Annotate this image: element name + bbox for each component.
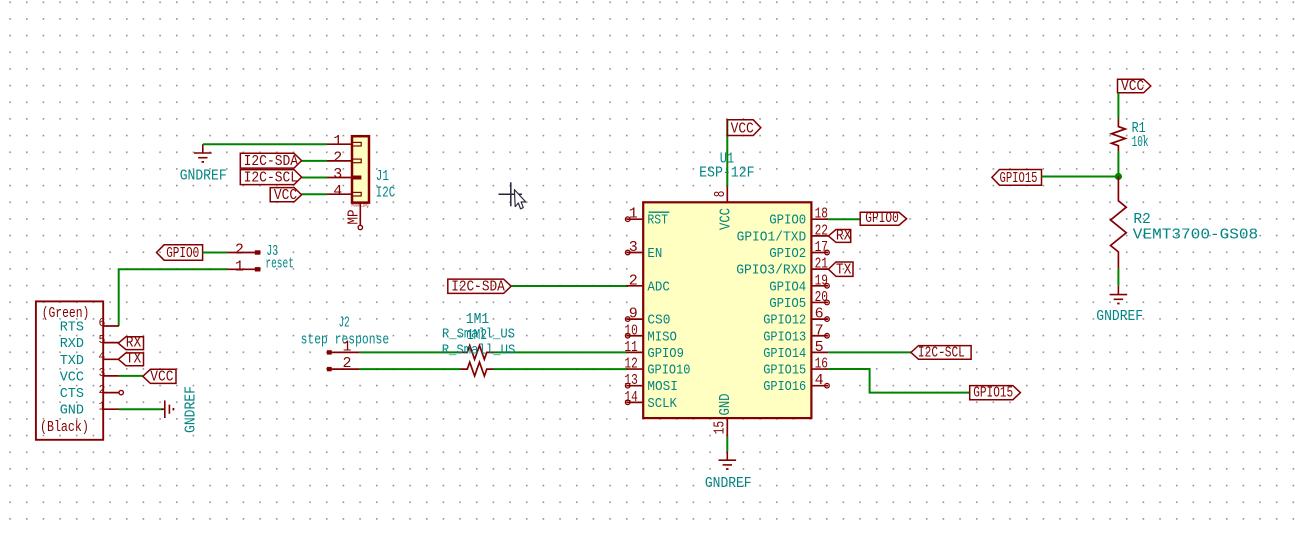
svg-text:GPIO0: GPIO0 bbox=[166, 245, 199, 262]
svg-text:GND: GND bbox=[60, 403, 84, 419]
svg-text:J2: J2 bbox=[339, 315, 350, 332]
svg-text:GPIO14: GPIO14 bbox=[763, 346, 806, 362]
svg-text:1: 1 bbox=[342, 339, 351, 356]
svg-text:J1: J1 bbox=[376, 168, 389, 185]
svg-text:VEMT3700-GS08: VEMT3700-GS08 bbox=[1133, 226, 1258, 243]
svg-text:VCC: VCC bbox=[150, 368, 173, 385]
svg-text:GPIO16: GPIO16 bbox=[763, 379, 806, 395]
svg-text:11: 11 bbox=[624, 339, 637, 356]
svg-text:I2C-SDA: I2C-SDA bbox=[244, 153, 299, 170]
svg-text:CTS: CTS bbox=[60, 386, 84, 402]
svg-text:VCC: VCC bbox=[60, 369, 84, 385]
svg-text:21: 21 bbox=[815, 256, 828, 273]
svg-text:GNDREF: GNDREF bbox=[180, 168, 227, 185]
svg-text:6: 6 bbox=[99, 317, 106, 330]
svg-text:7: 7 bbox=[815, 322, 824, 339]
svg-text:RST: RST bbox=[647, 213, 668, 229]
svg-text:reset: reset bbox=[265, 256, 294, 273]
svg-text:TXD: TXD bbox=[60, 353, 84, 369]
svg-text:ESP-12F: ESP-12F bbox=[699, 165, 755, 182]
svg-text:MISO: MISO bbox=[647, 329, 677, 345]
svg-text:2: 2 bbox=[629, 272, 638, 289]
svg-text:20: 20 bbox=[815, 289, 828, 306]
svg-text:4: 4 bbox=[815, 372, 824, 389]
svg-text:GPIO0: GPIO0 bbox=[865, 210, 899, 227]
svg-text:16: 16 bbox=[815, 356, 828, 373]
svg-text:GPIO9: GPIO9 bbox=[647, 346, 684, 362]
svg-text:GPIO3/RXD: GPIO3/RXD bbox=[736, 263, 806, 279]
svg-text:GPIO15: GPIO15 bbox=[763, 363, 806, 379]
svg-text:SCLK: SCLK bbox=[647, 396, 677, 412]
svg-text:GPIO0: GPIO0 bbox=[769, 213, 806, 229]
svg-text:18: 18 bbox=[815, 206, 828, 223]
svg-text:CS0: CS0 bbox=[647, 313, 670, 329]
svg-text:ADC: ADC bbox=[647, 279, 670, 295]
svg-text:VCC: VCC bbox=[274, 187, 297, 204]
svg-text:I2C-SCL: I2C-SCL bbox=[918, 344, 965, 361]
svg-text:12: 12 bbox=[624, 356, 637, 373]
svg-text:VCC: VCC bbox=[718, 208, 735, 230]
svg-text:2: 2 bbox=[235, 242, 244, 259]
svg-text:1: 1 bbox=[235, 258, 244, 275]
svg-text:GNDREF: GNDREF bbox=[705, 475, 752, 492]
svg-text:10: 10 bbox=[624, 322, 637, 339]
svg-text:2: 2 bbox=[99, 384, 106, 397]
svg-text:VCC: VCC bbox=[1121, 78, 1144, 95]
svg-text:VCC: VCC bbox=[731, 121, 754, 138]
svg-text:GPIO4: GPIO4 bbox=[769, 279, 806, 295]
svg-text:GNDREF: GNDREF bbox=[1096, 308, 1143, 325]
svg-text:5: 5 bbox=[815, 339, 824, 356]
svg-text:4: 4 bbox=[333, 183, 342, 200]
svg-text:10k: 10k bbox=[1132, 134, 1149, 151]
svg-text:1M2: 1M2 bbox=[467, 327, 487, 344]
svg-text:19: 19 bbox=[815, 272, 828, 289]
svg-text:6: 6 bbox=[815, 306, 824, 323]
svg-text:Mounting: Mounting bbox=[352, 203, 369, 209]
svg-text:RX: RX bbox=[836, 227, 852, 244]
svg-text:TX: TX bbox=[836, 261, 852, 278]
svg-text:15: 15 bbox=[712, 421, 729, 435]
svg-text:GPIO15: GPIO15 bbox=[973, 385, 1013, 402]
svg-text:1: 1 bbox=[99, 400, 106, 413]
svg-text:GPIO12: GPIO12 bbox=[763, 313, 806, 329]
svg-text:GNDREF: GNDREF bbox=[182, 386, 199, 433]
svg-text:4: 4 bbox=[99, 351, 106, 364]
svg-text:5: 5 bbox=[99, 334, 106, 347]
svg-text:22: 22 bbox=[815, 222, 828, 239]
svg-text:MOSI: MOSI bbox=[647, 379, 678, 395]
svg-text:GPIO13: GPIO13 bbox=[763, 329, 806, 345]
svg-text:8: 8 bbox=[712, 191, 729, 198]
svg-text:TX: TX bbox=[126, 351, 142, 368]
svg-text:RXD: RXD bbox=[60, 336, 84, 352]
svg-text:EN: EN bbox=[647, 246, 662, 262]
svg-text:3: 3 bbox=[99, 367, 106, 380]
svg-text:I2C-SCL: I2C-SCL bbox=[244, 170, 299, 187]
svg-text:14: 14 bbox=[624, 389, 637, 406]
svg-text:13: 13 bbox=[624, 372, 637, 389]
svg-text:GPIO2: GPIO2 bbox=[769, 246, 806, 262]
svg-text:I2C-SDA: I2C-SDA bbox=[451, 278, 505, 295]
svg-text:GPIO10: GPIO10 bbox=[647, 363, 690, 379]
svg-text:GPIO15: GPIO15 bbox=[1000, 170, 1038, 187]
svg-text:1: 1 bbox=[333, 133, 342, 150]
svg-text:GND: GND bbox=[717, 394, 734, 416]
svg-text:RTS: RTS bbox=[60, 320, 84, 336]
svg-text:MP: MP bbox=[345, 210, 362, 225]
svg-text:RX: RX bbox=[126, 335, 142, 352]
svg-text:GPIO5: GPIO5 bbox=[769, 296, 806, 312]
svg-text:I2C: I2C bbox=[376, 185, 395, 202]
svg-text:(Black): (Black) bbox=[40, 419, 89, 436]
svg-text:2: 2 bbox=[333, 150, 342, 167]
svg-text:17: 17 bbox=[815, 239, 828, 256]
svg-text:3: 3 bbox=[333, 166, 342, 183]
svg-text:R_Small_US: R_Small_US bbox=[442, 343, 516, 359]
svg-text:GPIO1/TXD: GPIO1/TXD bbox=[737, 229, 807, 245]
svg-text:2: 2 bbox=[342, 355, 351, 372]
